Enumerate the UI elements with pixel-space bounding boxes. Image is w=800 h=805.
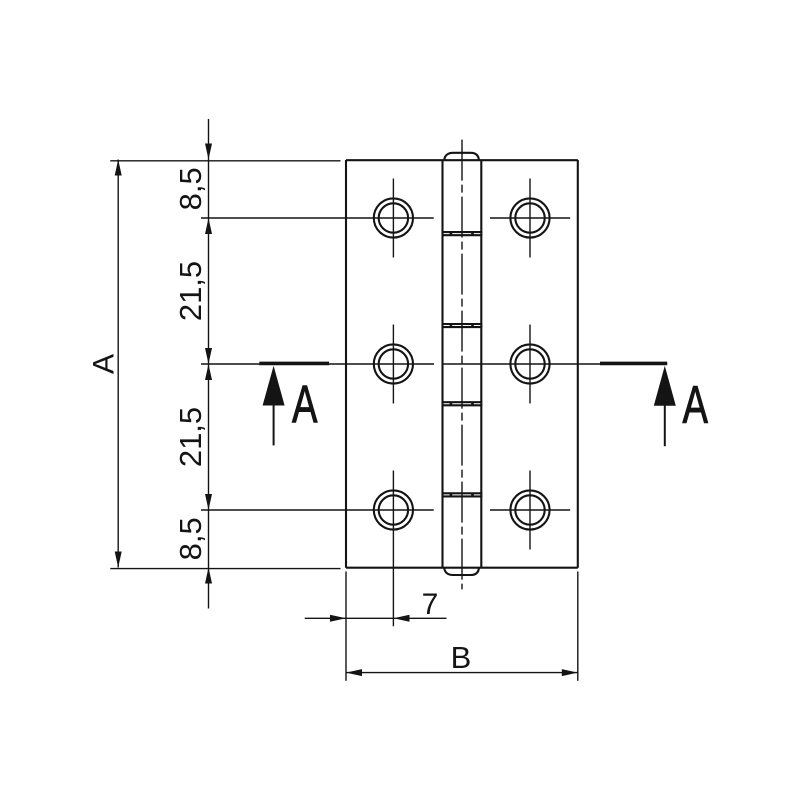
svg-text:8,5: 8,5 bbox=[173, 517, 208, 560]
svg-text:A: A bbox=[682, 374, 708, 434]
svg-text:21,5: 21,5 bbox=[173, 261, 208, 321]
svg-text:7: 7 bbox=[422, 588, 439, 621]
svg-text:A: A bbox=[88, 354, 121, 374]
svg-text:A: A bbox=[292, 374, 318, 434]
svg-text:8,5: 8,5 bbox=[173, 167, 208, 210]
svg-text:21,5: 21,5 bbox=[173, 407, 208, 467]
svg-text:B: B bbox=[451, 640, 472, 675]
